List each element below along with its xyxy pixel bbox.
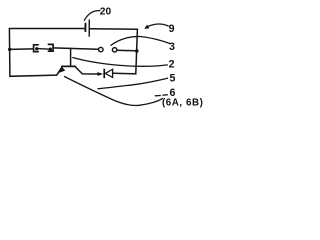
svg-text:9: 9 [169, 23, 175, 35]
svg-text:(6A, 6B): (6A, 6B) [162, 98, 203, 109]
svg-text:20: 20 [100, 7, 112, 18]
svg-text:3: 3 [169, 41, 175, 53]
svg-text:5: 5 [170, 72, 176, 84]
svg-text:2: 2 [169, 58, 175, 70]
